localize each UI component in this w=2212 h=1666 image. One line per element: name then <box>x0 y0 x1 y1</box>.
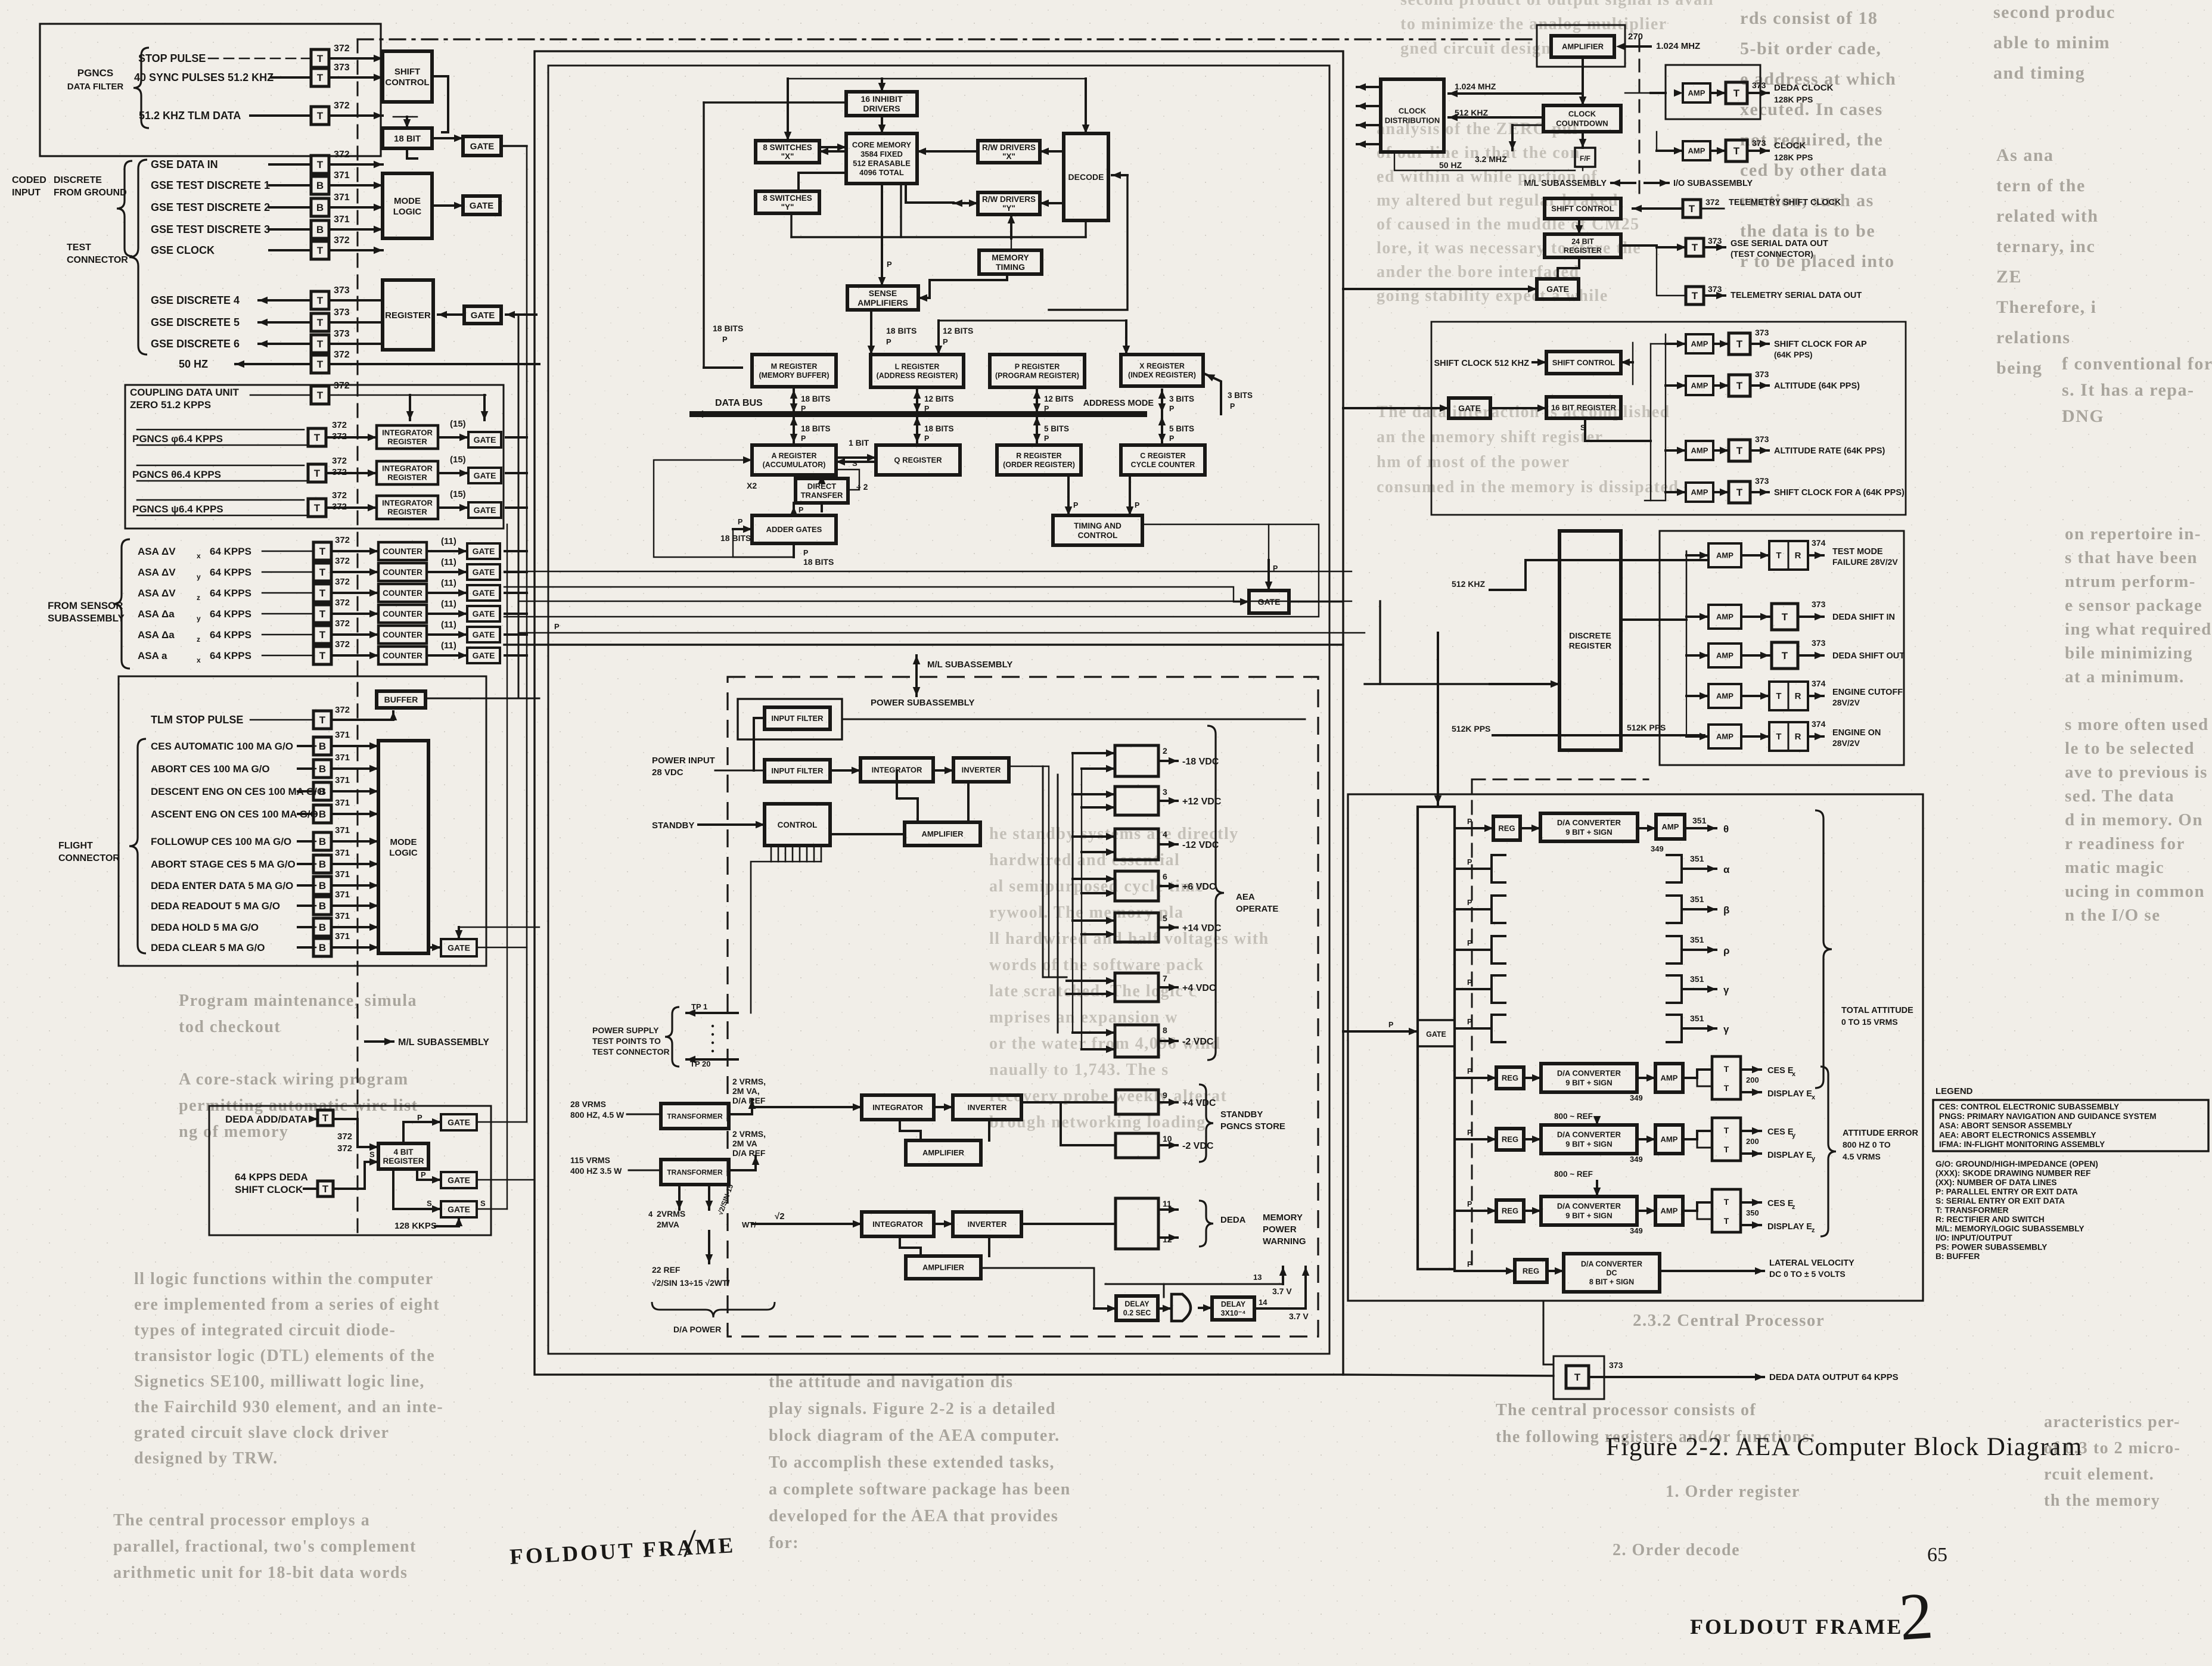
svg-text:on repertoire in-: on repertoire in- <box>2065 524 2201 543</box>
svg-text:(11): (11) <box>441 641 456 651</box>
svg-text:X2: X2 <box>747 481 757 490</box>
svg-text:9 BIT + SIGN: 9 BIT + SIGN <box>1565 1078 1612 1087</box>
svg-text:372: 372 <box>334 43 350 54</box>
svg-text:3: 3 <box>1163 787 1167 797</box>
svg-text:COUNTER: COUNTER <box>383 610 422 618</box>
svg-text:T: T <box>1733 145 1740 157</box>
svg-text:ucing in common: ucing in common <box>2065 882 2205 901</box>
svg-text:γ: γ <box>1723 1024 1729 1035</box>
svg-text:REG: REG <box>1498 824 1515 833</box>
svg-text:8 BIT + SIGN: 8 BIT + SIGN <box>1589 1278 1634 1286</box>
svg-text:FAILURE 28V/2V: FAILURE 28V/2V <box>1832 557 1898 567</box>
svg-text:GSE CLOCK: GSE CLOCK <box>151 244 215 256</box>
svg-text:64 KPPS DEDA: 64 KPPS DEDA <box>235 1171 308 1183</box>
svg-text:T: T <box>1689 203 1695 215</box>
svg-text:2.3.2 Central Processor: 2.3.2 Central Processor <box>1633 1311 1825 1330</box>
svg-text:OPERATE: OPERATE <box>1236 904 1278 914</box>
svg-text:P: P <box>801 405 806 413</box>
svg-text:+4 VDC: +4 VDC <box>1182 983 1216 993</box>
svg-text:371: 371 <box>335 753 350 763</box>
svg-text:R REGISTER: R REGISTER <box>1016 452 1061 460</box>
svg-text:T: TRANSFORMER: T: TRANSFORMER <box>1936 1206 2009 1215</box>
svg-text:P: P <box>722 335 728 344</box>
svg-text:50 HZ: 50 HZ <box>179 358 208 370</box>
svg-text:3X10⁻⁴: 3X10⁻⁴ <box>1221 1309 1246 1317</box>
svg-text:F/F: F/F <box>1580 154 1590 163</box>
svg-text:372: 372 <box>335 618 350 629</box>
svg-text:P: P <box>1135 501 1139 509</box>
svg-text:bile minimizing: bile minimizing <box>2065 644 2193 663</box>
svg-text:270: 270 <box>1628 32 1643 42</box>
svg-text:T: T <box>319 608 326 620</box>
svg-text:DELAY: DELAY <box>1221 1300 1246 1308</box>
svg-text:x: x <box>197 552 201 560</box>
svg-text:f conventional for-: f conventional for- <box>2062 354 2212 374</box>
svg-text:+6 VDC: +6 VDC <box>1182 882 1216 892</box>
svg-text:351: 351 <box>1690 854 1704 863</box>
svg-text:P: P <box>1467 1200 1472 1208</box>
svg-text:BUFFER: BUFFER <box>384 695 418 704</box>
svg-text:ENGINE CUTOFF: ENGINE CUTOFF <box>1832 688 1903 697</box>
svg-text:14: 14 <box>1259 1298 1267 1307</box>
svg-text:GATE: GATE <box>473 630 495 639</box>
svg-text:R/W DRIVERS: R/W DRIVERS <box>982 195 1036 204</box>
svg-text:2M VA,: 2M VA, <box>732 1086 760 1096</box>
svg-text:64 KPPS: 64 KPPS <box>210 608 251 620</box>
svg-text:5 BITS: 5 BITS <box>1169 424 1194 433</box>
svg-text:CES AUTOMATIC 100 MA G/O: CES AUTOMATIC 100 MA G/O <box>151 741 293 752</box>
svg-text:R: R <box>1795 732 1801 742</box>
svg-text:SHIFT CLOCK: SHIFT CLOCK <box>235 1184 303 1195</box>
svg-text:P: P <box>1467 818 1472 826</box>
svg-text:at a minimum.: at a minimum. <box>2065 667 2185 686</box>
svg-text:DEDA SHIFT IN: DEDA SHIFT IN <box>1832 613 1895 622</box>
svg-text:AMP: AMP <box>1661 1135 1678 1144</box>
svg-text:(11): (11) <box>441 620 456 630</box>
svg-text:40 SYNC PULSES 51.2 KHZ: 40 SYNC PULSES 51.2 KHZ <box>134 72 274 83</box>
svg-text:COUNTDOWN: COUNTDOWN <box>1556 119 1608 128</box>
svg-text:3.7 V: 3.7 V <box>1272 1286 1292 1296</box>
svg-text:B: B <box>319 763 326 775</box>
svg-text:T: T <box>322 1183 329 1195</box>
svg-text:WT/: WT/ <box>742 1220 756 1229</box>
svg-text:Figure 2-2. AEA Computer Blo: Figure 2-2. AEA Computer Block Diagram <box>1606 1433 2083 1461</box>
svg-text:372: 372 <box>337 1143 352 1154</box>
svg-text:372: 372 <box>335 556 350 566</box>
svg-text:s. It has a repa-: s. It has a repa- <box>2062 380 2194 400</box>
svg-text:T: T <box>322 1112 329 1124</box>
svg-text:ASA ΔV: ASA ΔV <box>138 567 176 578</box>
svg-text:COUNTER: COUNTER <box>383 589 422 598</box>
svg-text:349: 349 <box>1630 1093 1643 1102</box>
svg-text:-2 VDC: -2 VDC <box>1182 1141 1214 1151</box>
svg-text:P: P <box>886 337 891 346</box>
svg-text:349: 349 <box>1630 1155 1643 1164</box>
svg-text:(64K PPS): (64K PPS) <box>1774 350 1813 359</box>
svg-text:ρ: ρ <box>1723 945 1730 956</box>
svg-text:(ACCUMULATOR): (ACCUMULATOR) <box>763 461 826 469</box>
svg-text:P: P <box>924 405 929 413</box>
svg-text:CLOCK: CLOCK <box>1399 107 1427 116</box>
svg-text:ASA: ABORT SENSOR ASSEMBLY: ASA: ABORT SENSOR ASSEMBLY <box>1939 1121 2073 1130</box>
svg-text:372: 372 <box>332 456 347 466</box>
svg-text:371: 371 <box>334 215 350 225</box>
svg-text:LOGIC: LOGIC <box>389 848 418 858</box>
svg-text:P: P <box>1467 939 1472 947</box>
svg-text:372: 372 <box>337 1132 352 1142</box>
svg-text:DISPLAY E: DISPLAY E <box>1767 1222 1812 1232</box>
svg-text:second product of output signa: second product of output signal is avail <box>1400 0 1714 9</box>
svg-text:AMP: AMP <box>1691 488 1708 497</box>
svg-text:64 KPPS: 64 KPPS <box>210 588 251 599</box>
svg-text:AMPLIFIER: AMPLIFIER <box>921 829 964 838</box>
svg-text:T: T <box>1736 338 1743 350</box>
svg-text:T: T <box>317 317 324 328</box>
svg-text:12 BITS: 12 BITS <box>943 326 973 335</box>
svg-text:28 VRMS: 28 VRMS <box>570 1099 606 1109</box>
svg-text:types of integrated circuit di: types of integrated circuit diode- <box>134 1321 396 1339</box>
svg-text:able to minim: able to minim <box>1993 33 2110 52</box>
svg-text:1.024 MHZ: 1.024 MHZ <box>1455 82 1496 91</box>
svg-text:x: x <box>197 656 201 664</box>
svg-text:349: 349 <box>1651 844 1664 853</box>
svg-text:P: P <box>1467 1260 1472 1269</box>
svg-text:AMP: AMP <box>1716 613 1733 621</box>
svg-text:28V/2V: 28V/2V <box>1832 738 1860 748</box>
svg-text:B: B <box>319 741 326 752</box>
svg-text:351: 351 <box>1690 1014 1704 1023</box>
svg-text:√2: √2 <box>775 1211 785 1221</box>
svg-text:aracteristics per-: aracteristics per- <box>2044 1413 2180 1431</box>
svg-text:B: B <box>319 880 326 891</box>
svg-text:371: 371 <box>334 170 350 181</box>
svg-text:I/O: INPUT/OUTPUT: I/O: INPUT/OUTPUT <box>1936 1233 2012 1242</box>
svg-text:D/A CONVERTER: D/A CONVERTER <box>1581 1260 1642 1269</box>
svg-text:POWER SUBASSEMBLY: POWER SUBASSEMBLY <box>871 698 974 708</box>
svg-text:AMP: AMP <box>1661 1207 1678 1216</box>
svg-text:P: P <box>1467 1129 1472 1137</box>
svg-text:a complete software package ha: a complete software package has been <box>769 1480 1071 1499</box>
svg-text:P: P <box>803 549 808 557</box>
svg-text:B: B <box>319 809 326 820</box>
svg-text:INTEGRATOR: INTEGRATOR <box>382 428 433 437</box>
svg-text:GATE: GATE <box>448 1176 470 1185</box>
svg-text:371: 371 <box>335 931 350 941</box>
svg-text:Therefore, i: Therefore, i <box>1996 297 2097 317</box>
svg-text:REG: REG <box>1502 1074 1518 1083</box>
svg-text:D/A CONVERTER: D/A CONVERTER <box>1557 1130 1621 1139</box>
svg-text:DEDA CLEAR 5 MA G/O: DEDA CLEAR 5 MA G/O <box>151 942 265 953</box>
svg-text:T: T <box>319 650 326 661</box>
svg-text:64 KPPS: 64 KPPS <box>210 650 251 661</box>
svg-text:373: 373 <box>1755 476 1769 486</box>
svg-text:GSE TEST DISCRETE 2: GSE TEST DISCRETE 2 <box>151 201 270 213</box>
svg-text:INTEGRATOR: INTEGRATOR <box>382 499 433 508</box>
svg-text:SHIFT: SHIFT <box>394 67 420 77</box>
svg-text:3 BITS: 3 BITS <box>1228 391 1253 400</box>
svg-text:L REGISTER: L REGISTER <box>895 363 940 371</box>
svg-text:CORE MEMORY: CORE MEMORY <box>852 140 912 149</box>
svg-text:rcuit element.: rcuit element. <box>2044 1465 2154 1484</box>
svg-text:-18 VDC: -18 VDC <box>1182 757 1219 767</box>
svg-text:GATE: GATE <box>474 505 496 515</box>
svg-text:T: T <box>314 468 321 479</box>
svg-text:ADDER GATES: ADDER GATES <box>766 525 822 534</box>
svg-text:SHIFT CLOCK 512 KHZ: SHIFT CLOCK 512 KHZ <box>1434 359 1529 368</box>
svg-text:(15): (15) <box>450 489 466 499</box>
svg-text:T: T <box>319 588 326 599</box>
svg-text:REGISTER: REGISTER <box>1569 641 1612 651</box>
svg-text:2 VRMS,: 2 VRMS, <box>732 1129 766 1139</box>
svg-text:FOLLOWUP CES 100 MA G/O: FOLLOWUP CES 100 MA G/O <box>151 836 291 847</box>
svg-text:T: T <box>319 714 326 726</box>
svg-text:DEDA HOLD 5 MA G/O: DEDA HOLD 5 MA G/O <box>151 922 259 933</box>
svg-text:ll hardwired and half voltages: ll hardwired and half voltages with <box>989 930 1269 948</box>
svg-text:ZERO 51.2 KPPS: ZERO 51.2 KPPS <box>130 399 211 411</box>
svg-text:T: T <box>1724 1145 1729 1154</box>
svg-text:T: T <box>1724 1083 1729 1093</box>
svg-text:T: T <box>1724 1197 1729 1207</box>
svg-text:AMP: AMP <box>1661 1074 1678 1083</box>
svg-text:tern of the: tern of the <box>1996 176 2086 195</box>
svg-text:M REGISTER: M REGISTER <box>771 362 818 371</box>
svg-text:DECODE: DECODE <box>1068 172 1104 182</box>
svg-text:DRIVERS: DRIVERS <box>863 104 900 113</box>
svg-text:ALTITUDE (64K PPS): ALTITUDE (64K PPS) <box>1774 381 1860 391</box>
svg-text:CES E: CES E <box>1767 1127 1794 1137</box>
svg-text:INTEGRATOR: INTEGRATOR <box>872 1220 923 1229</box>
svg-text:MODE: MODE <box>390 837 417 847</box>
svg-text:ABORT STAGE CES 5 MA G/O: ABORT STAGE CES 5 MA G/O <box>151 859 296 870</box>
svg-text:Q REGISTER: Q REGISTER <box>894 456 942 465</box>
svg-text:373: 373 <box>1708 236 1722 245</box>
svg-text:T: T <box>317 338 324 350</box>
svg-text:T: T <box>317 390 324 401</box>
svg-text:T: T <box>1692 290 1698 302</box>
svg-text:T: T <box>319 567 326 578</box>
svg-text:GATE: GATE <box>470 141 495 151</box>
svg-text:PGNCS ψ6.4 KPPS: PGNCS ψ6.4 KPPS <box>132 503 223 515</box>
svg-text:-12 VDC: -12 VDC <box>1182 840 1219 850</box>
svg-text:R: RECTIFIER AND SWITCH: R: RECTIFIER AND SWITCH <box>1936 1215 2045 1224</box>
svg-text:REGISTER: REGISTER <box>385 310 431 321</box>
svg-text:T: T <box>317 110 324 122</box>
svg-text:16 BIT REGISTER: 16 BIT REGISTER <box>1551 403 1617 412</box>
svg-text:AMP: AMP <box>1716 732 1733 741</box>
svg-text:naually to 1,743. The s: naually to 1,743. The s <box>989 1061 1169 1079</box>
svg-text:M/L SUBASSEMBLY: M/L SUBASSEMBLY <box>1524 179 1607 188</box>
svg-text:late scratched. The logic c: late scratched. The logic c <box>989 982 1197 1000</box>
svg-text:LOGIC: LOGIC <box>393 207 422 217</box>
svg-text:(11): (11) <box>441 536 456 546</box>
svg-text:512 KHZ: 512 KHZ <box>1455 108 1488 117</box>
svg-text:s that have been: s that have been <box>2065 548 2198 567</box>
svg-text:REG: REG <box>1523 1267 1539 1276</box>
svg-text:STANDBY: STANDBY <box>652 820 694 831</box>
svg-text:words of the software pack: words of the software pack <box>989 956 1204 974</box>
svg-text:512 ERASABLE: 512 ERASABLE <box>853 158 911 167</box>
svg-text:The data interaction is accomp: The data interaction is accomplished <box>1377 403 1670 421</box>
svg-text:DEDA READOUT 5 MA G/O: DEDA READOUT 5 MA G/O <box>151 900 280 912</box>
svg-text:ASA ΔV: ASA ΔV <box>138 546 176 557</box>
svg-text:AMPLIFIERS: AMPLIFIERS <box>858 298 908 307</box>
svg-text:SHIFT CONTROL: SHIFT CONTROL <box>1552 358 1615 367</box>
svg-text:POWER: POWER <box>1263 1224 1297 1235</box>
svg-text:DISCRETE: DISCRETE <box>54 175 102 185</box>
svg-text:AMP: AMP <box>1691 446 1708 455</box>
svg-text:373: 373 <box>1812 599 1826 609</box>
svg-text:d in memory. On: d in memory. On <box>2065 810 2203 829</box>
svg-text:y: y <box>197 614 201 623</box>
svg-text:COUPLING DATA UNIT: COUPLING DATA UNIT <box>130 387 240 398</box>
svg-text:P: P <box>801 434 806 443</box>
svg-text:T: T <box>1776 691 1781 701</box>
svg-text:2. Order decode: 2. Order decode <box>1613 1541 1740 1559</box>
svg-text:ADDRESS MODE: ADDRESS MODE <box>1083 399 1154 408</box>
svg-text:371: 371 <box>335 848 350 858</box>
svg-text:373: 373 <box>1755 434 1769 444</box>
svg-text:√2/SIN 13÷15 √2WT/: √2/SIN 13÷15 √2WT/ <box>652 1278 730 1288</box>
svg-text:AMP: AMP <box>1716 692 1733 701</box>
svg-text:P: P <box>417 1113 422 1122</box>
svg-text:P: P <box>799 506 803 514</box>
svg-text:9: 9 <box>1163 1090 1167 1100</box>
svg-text:D/A CONVERTER: D/A CONVERTER <box>1557 1202 1621 1211</box>
svg-text:T: T <box>1724 1126 1729 1135</box>
svg-text:TP 1: TP 1 <box>691 1002 707 1011</box>
svg-text:512K PPS: 512K PPS <box>1627 723 1666 732</box>
svg-text:P: P <box>1467 858 1472 866</box>
svg-text:372: 372 <box>335 535 350 545</box>
svg-text:POWER INPUT: POWER INPUT <box>652 756 715 766</box>
svg-text:and timing: and timing <box>1993 63 2085 83</box>
svg-text:LEGEND: LEGEND <box>1936 1086 1973 1096</box>
svg-text:ENGINE ON: ENGINE ON <box>1832 728 1881 738</box>
svg-text:REG: REG <box>1502 1135 1518 1144</box>
svg-text:GATE: GATE <box>448 1118 470 1127</box>
svg-text:AMPLIFIER: AMPLIFIER <box>922 1263 965 1272</box>
svg-text:5: 5 <box>1163 913 1167 923</box>
svg-text:arithmetic unit for 18-bit dat: arithmetic unit for 18-bit data words <box>113 1564 408 1582</box>
svg-text:GATE: GATE <box>471 310 495 321</box>
svg-text:GATE: GATE <box>473 609 495 618</box>
svg-text:x: x <box>1792 1071 1796 1078</box>
svg-text:INTEGRATOR: INTEGRATOR <box>872 1103 923 1112</box>
svg-text:CODED: CODED <box>12 175 46 185</box>
svg-text:z: z <box>1792 1204 1795 1211</box>
svg-text:e sensor package: e sensor package <box>2065 596 2202 615</box>
svg-text:P: P <box>1388 1021 1393 1029</box>
svg-text:GSE DISCRETE 5: GSE DISCRETE 5 <box>151 316 240 328</box>
svg-text:T: T <box>1776 732 1781 742</box>
svg-text:P: P <box>738 518 742 526</box>
svg-text:X REGISTER: X REGISTER <box>1139 362 1185 371</box>
svg-text:P: P <box>887 260 892 269</box>
svg-text:r readiness for: r readiness for <box>2065 834 2185 853</box>
svg-text:18 BITS: 18 BITS <box>886 326 917 335</box>
svg-text:512 KHZ: 512 KHZ <box>1452 579 1485 589</box>
svg-text:T: T <box>1733 88 1740 99</box>
svg-text:second produc: second produc <box>1993 2 2115 22</box>
svg-text:play signals. Figure 2-2 is a: play signals. Figure 2-2 is a detailed <box>769 1400 1056 1418</box>
svg-text:2VRMS: 2VRMS <box>657 1209 685 1219</box>
svg-text:TEST: TEST <box>67 243 91 253</box>
svg-text:DEDA SHIFT OUT: DEDA SHIFT OUT <box>1832 651 1905 661</box>
svg-text:FLIGHT: FLIGHT <box>58 841 93 851</box>
svg-text:T: T <box>1736 487 1743 498</box>
svg-text:P: P <box>1169 434 1174 443</box>
svg-text:351: 351 <box>1690 974 1704 984</box>
svg-text:ASA Δa: ASA Δa <box>138 608 175 620</box>
svg-text:consumed in the memory is diss: consumed in the memory is dissipated <box>1377 478 1679 496</box>
svg-text:372: 372 <box>335 598 350 608</box>
svg-text:2: 2 <box>1897 1578 1936 1655</box>
svg-text:DC: DC <box>1606 1269 1617 1278</box>
svg-text:ced by other data: ced by other data <box>1740 160 1887 180</box>
svg-text:P: P <box>1044 434 1049 443</box>
svg-text:REGISTER: REGISTER <box>387 473 427 482</box>
svg-text:SENSE: SENSE <box>869 288 897 298</box>
svg-text:The central processor consists: The central processor consists of <box>1496 1401 1756 1419</box>
svg-text:10: 10 <box>1163 1134 1172 1143</box>
svg-text:S: S <box>369 1150 375 1159</box>
svg-text:372: 372 <box>335 577 350 587</box>
svg-text:371: 371 <box>335 911 350 921</box>
svg-text:373: 373 <box>334 307 350 318</box>
svg-text:REGISTER: REGISTER <box>387 508 427 517</box>
svg-text:M/L SUBASSEMBLY: M/L SUBASSEMBLY <box>927 660 1012 670</box>
svg-text:ASA a: ASA a <box>138 650 167 661</box>
svg-text:INPUT FILTER: INPUT FILTER <box>771 766 824 775</box>
svg-text:18 BITS: 18 BITS <box>713 324 743 333</box>
svg-text:n the I/O se: n the I/O se <box>2065 906 2161 925</box>
svg-text:REGISTER: REGISTER <box>1564 247 1602 255</box>
svg-text:P: P <box>924 434 929 443</box>
svg-text:51.2 KHZ TLM DATA: 51.2 KHZ TLM DATA <box>139 110 241 122</box>
svg-text:tod checkout: tod checkout <box>179 1018 281 1036</box>
svg-text:GATE: GATE <box>473 588 495 598</box>
svg-text:372: 372 <box>334 101 350 111</box>
svg-text:As ana: As ana <box>1996 145 2054 165</box>
svg-text:373: 373 <box>1755 369 1769 379</box>
svg-text:372: 372 <box>334 381 350 391</box>
svg-text:64 KPPS: 64 KPPS <box>210 567 251 578</box>
svg-text:2M VA: 2M VA <box>732 1139 757 1148</box>
svg-text:P: P <box>421 1170 426 1179</box>
svg-text:374: 374 <box>1812 538 1826 548</box>
svg-text:INVERTER: INVERTER <box>968 1220 1007 1229</box>
svg-text:P: P <box>1073 501 1078 509</box>
svg-text:P: P <box>1230 402 1235 411</box>
svg-text:α: α <box>1723 864 1730 875</box>
svg-text:CES: CONTROL ELECTRONIC SUBAS: CES: CONTROL ELECTRONIC SUBASSEMBLY <box>1939 1102 2119 1111</box>
svg-text:x: x <box>1812 1094 1816 1101</box>
svg-text:z: z <box>197 635 200 644</box>
svg-text:0.2 SEC: 0.2 SEC <box>1123 1309 1151 1317</box>
svg-text:R: R <box>1795 551 1801 561</box>
svg-text:371: 371 <box>335 775 350 785</box>
svg-text:COUNTER: COUNTER <box>383 568 422 577</box>
svg-text:transistor logic (DTL) element: transistor logic (DTL) elements of the <box>134 1347 435 1365</box>
svg-text:B: B <box>319 922 326 933</box>
svg-text:CES E: CES E <box>1767 1066 1794 1076</box>
svg-text:s more often used: s more often used <box>2065 715 2209 734</box>
svg-text:FROM SENSOR: FROM SENSOR <box>48 600 123 611</box>
svg-text:ATTITUDE ERROR: ATTITUDE ERROR <box>1843 1129 1919 1138</box>
svg-text:D/A CONVERTER: D/A CONVERTER <box>1557 1069 1621 1078</box>
svg-text:ABORT CES 100 MA G/O: ABORT CES 100 MA G/O <box>151 763 270 775</box>
svg-text:16 INHIBIT: 16 INHIBIT <box>860 94 902 104</box>
